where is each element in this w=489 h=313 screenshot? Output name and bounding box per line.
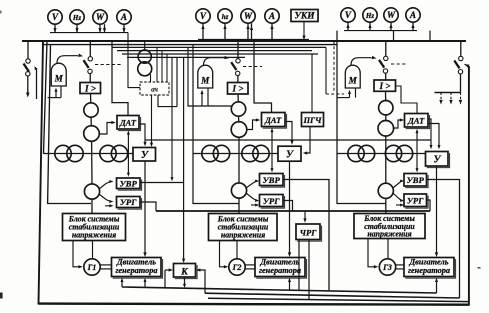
exciter machine E1 (84, 184, 99, 199)
svg-text:УРГ: УРГ (120, 197, 137, 207)
wire excitation L group 1 (48, 45, 91, 204)
wire CT feeder group 1 (43, 153, 133, 155)
svg-text:A: A (409, 10, 416, 20)
wire block1 to G1 top (92, 241, 94, 259)
wire U3 to motor block 3 (436, 166, 438, 255)
control line 4 (127, 56, 245, 58)
wire M2 lead left (201, 92, 203, 107)
overcurrent relay I>1 (80, 83, 101, 94)
current transformer CT2-2 (231, 122, 247, 138)
wire generator column 2 (238, 137, 240, 184)
wire U1 to motor block 1 (144, 161, 146, 255)
ammeter A1 (117, 10, 131, 24)
motor block 2 (255, 258, 305, 277)
bottom line 3 (208, 298, 469, 301)
current transformer pair B3 (385, 145, 401, 161)
feedback line UVR3 (205, 293, 460, 298)
wire K right input (199, 270, 206, 293)
svg-text:К: К (180, 266, 188, 277)
control unit UKI box (291, 10, 318, 22)
wire right feeder lower (460, 74, 462, 93)
stabiliser block 3 (354, 214, 425, 239)
wire U2 to motor block 2 (289, 161, 291, 254)
wire to ChRG (304, 211, 306, 221)
wire E3 to URG3 (393, 193, 402, 201)
wire left feeder (27, 41, 29, 59)
svg-text:I >: I > (84, 83, 96, 93)
shaft G2 (245, 264, 255, 266)
overcurrent relay I>3 (374, 80, 396, 91)
wire E3 to stabiliser block 3 (385, 198, 387, 214)
wire UVR1 output (140, 182, 184, 184)
wire E1 to UVR1 (99, 182, 111, 190)
wire control drop c (166, 54, 168, 82)
current transformer CT1-1 (84, 103, 98, 117)
svg-text:М: М (348, 76, 358, 86)
regulator box UVR2 (260, 174, 284, 186)
voltmeter V3 (341, 8, 355, 22)
wire UVR2 output (283, 180, 329, 292)
wire block2 to G2 left (220, 241, 226, 267)
wire collector drop group 3 right (429, 31, 431, 41)
ammeter A2 (265, 9, 279, 23)
frequency meter Hz2 (218, 9, 232, 23)
wire M3 trip arrow to breaker (351, 58, 372, 65)
wire DAT3 to U3 feed b (428, 124, 439, 148)
wire M3 lead right (355, 88, 357, 98)
svg-text:Г2: Г2 (232, 263, 242, 272)
wire UVR1 to K box (183, 57, 185, 261)
svg-text:УКИ: УКИ (294, 12, 315, 22)
wire I>2 to CT2-1 (237, 94, 239, 103)
wire ChRG down right (308, 240, 310, 300)
ammeter A3 (406, 8, 420, 22)
interlock arrow right feeder (464, 63, 470, 68)
svg-text:I >: I > (378, 81, 390, 91)
wire dashed vertical (333, 41, 335, 92)
wire control drop onto UVR1 line (171, 57, 173, 179)
wire control to DAT2 (254, 41, 272, 113)
regulator box URG1 (117, 197, 141, 208)
wire E2 to stabiliser block 2 (238, 198, 240, 214)
wire instrument collector group 3 (344, 30, 417, 32)
voltmeter V2 (196, 9, 210, 23)
feedback line K (122, 287, 437, 293)
svg-text:М: М (54, 74, 64, 84)
current transformer CT3-2 (378, 121, 394, 137)
wire E2 to URG2 (246, 193, 257, 201)
wire DAT2 to U2 (285, 122, 292, 143)
instrument switch box SA1 (140, 82, 169, 95)
current transformer pair B1 (100, 145, 116, 161)
svg-text:У: У (434, 155, 442, 166)
wire feedback to motor1 b (144, 280, 146, 288)
wire E1 to URG1 (99, 194, 111, 202)
wire CT3-2 to DAT3 input (393, 120, 402, 128)
svg-text:генератора: генератора (115, 266, 157, 275)
wire DAT3 to U3 feed a (428, 119, 431, 147)
svg-text:I >: I > (231, 84, 243, 94)
breaker left feeder (26, 59, 30, 63)
wire CT2-1 to CT2-2 (238, 116, 240, 123)
svg-text:М: М (200, 76, 210, 86)
wire aux to URG2 (251, 204, 257, 206)
wire left vertical 2 (44, 41, 48, 154)
frequency meter Hz3 (363, 8, 377, 22)
wire I>1 to CT1 (90, 94, 92, 104)
wire DAT3 / UVR3 vertical (416, 131, 418, 172)
load arrow 1 (440, 93, 442, 102)
motor relay M2 (198, 65, 213, 88)
wire Q3 interlock dashes (391, 63, 406, 65)
stabiliser block 1 (63, 214, 126, 241)
wire block3 to G3 top (387, 239, 389, 259)
motor relay M1 (51, 63, 66, 86)
wire E1 to stabiliser block 1 (91, 199, 93, 214)
control line 3 (122, 53, 318, 55)
wire ChRG down left (298, 240, 300, 291)
wire collector drop group 3 (393, 31, 395, 41)
wire control drop group 3 (325, 47, 327, 94)
wire instrument collector group 2 (198, 39, 309, 41)
current transformer pair A3 (348, 145, 364, 161)
wattmeter W3 (384, 8, 398, 22)
sensor box DAT1 (117, 116, 139, 130)
shaft G3 (396, 264, 404, 266)
current transformer pair A1 (55, 145, 71, 161)
svg-text:УРГ: УРГ (263, 196, 280, 206)
wire instrument collector group 1 (50, 32, 128, 34)
wire aux L group 2 (188, 47, 232, 106)
bus line 2 (43, 44, 337, 46)
wire M2 trip arrow to breaker (204, 58, 225, 65)
regulator box UVR1 (117, 178, 141, 189)
svg-text:У: У (141, 150, 149, 161)
wire generator column 3 (385, 135, 387, 184)
wire CT feeder group 2 (193, 153, 278, 155)
wire collector drop group 1 (128, 33, 140, 88)
generator G3 (379, 259, 395, 275)
regulator box UVR3 (404, 174, 427, 187)
svg-text:Г1: Г1 (87, 263, 97, 272)
enclosure border (39, 41, 469, 305)
wire M1 trip arrow to breaker (57, 56, 78, 64)
wire switch box stub (158, 95, 177, 107)
amplifier box U1 (133, 148, 156, 162)
wire VT to switch box (150, 74, 152, 82)
current transformer pair B2 (242, 145, 258, 161)
scan mark right margin dot (478, 267, 481, 269)
wire wattmeter W2 second stalk (251, 23, 253, 39)
svg-text:Hz: Hz (72, 14, 81, 22)
excitation L wire group 3 (337, 31, 386, 204)
load arrow 3 (460, 93, 462, 102)
wire CT2-2 to DAT2 input (246, 120, 258, 130)
control line 2 (117, 50, 312, 52)
overcurrent relay I>2 (228, 83, 249, 95)
wire control drop d (176, 57, 178, 106)
wire feedback to motor1 (121, 280, 123, 287)
svg-text:Г3: Г3 (382, 263, 392, 272)
wire aux to URG1 (105, 205, 111, 207)
load bar (435, 92, 462, 94)
wire Q1 to I>1 (89, 74, 91, 83)
wire I>3 to CT3-1 (385, 91, 387, 101)
exciter machine E2 (231, 183, 246, 198)
wire block2 to G2 top (236, 241, 238, 259)
svg-text:ач: ач (151, 86, 158, 94)
wire switch box output to U1 (151, 95, 153, 145)
svg-text:W: W (244, 11, 253, 21)
svg-text:напряжения: напряжения (72, 231, 116, 240)
wire URG3 output (427, 200, 431, 211)
motor block 3 (404, 258, 454, 277)
wire DAT2 / UVR2 vertical (271, 130, 273, 172)
shaft G1 (100, 264, 111, 266)
wire PGCh to U2 right (306, 127, 311, 154)
wire block3 to G3 left (368, 239, 376, 267)
excitation L wire group 2 (193, 45, 239, 204)
frequency regulator box ChRG (296, 224, 320, 240)
svg-text:V: V (345, 10, 352, 20)
regulator box URG3 (404, 194, 427, 207)
wire K output down (184, 277, 186, 285)
sensor box DAT3 (405, 114, 429, 128)
wire feedback to motor2 (289, 280, 291, 290)
wire left feeder interlock (36, 68, 38, 99)
svg-text:ДАТ: ДАТ (407, 117, 425, 126)
control line 1 (112, 46, 326, 48)
wire control to PGCh (311, 54, 313, 113)
wire block1 to G1 left (73, 241, 81, 267)
wire measurement bus y140 (145, 139, 431, 141)
svg-text:УВР: УВР (120, 178, 138, 188)
wire URG2 output (283, 201, 293, 212)
wire DAT1 / UVR1 vertical (127, 132, 129, 175)
voltage transformer T1 winding 2 (138, 62, 152, 76)
breaker right feeder (459, 56, 463, 60)
svg-text:генератора: генератора (259, 266, 301, 275)
wire Q1 interlock dashes (95, 64, 122, 66)
svg-text:УВР: УВР (263, 175, 281, 185)
common URG line (156, 210, 430, 212)
svg-text:генератора: генератора (408, 266, 450, 275)
svg-text:У: У (286, 150, 294, 161)
current transformer pair A2 (202, 145, 218, 161)
wire Q3 to I>3 (385, 73, 387, 80)
wire right feeder (460, 41, 462, 56)
svg-text:УРГ: УРГ (407, 196, 424, 206)
wire I>3 to DAT3 (396, 86, 418, 114)
wire M1 leads horizontal (48, 97, 61, 99)
wire M3 lead left (349, 92, 351, 98)
svg-text:W: W (387, 10, 396, 20)
amplifier box U2 (278, 146, 301, 161)
wire E3 to UVR3 (393, 181, 402, 188)
motor block 1 (112, 258, 162, 277)
svg-text:hz: hz (222, 13, 229, 21)
circuit breaker Q1 (89, 41, 91, 57)
frequency meter Hz1 (70, 10, 84, 24)
K box (174, 264, 196, 278)
exciter machine E3 (378, 183, 393, 198)
circuit breaker Q2 (237, 41, 239, 59)
svg-text:УВР: УВР (407, 175, 425, 185)
svg-text:A: A (120, 12, 127, 22)
svg-text:A: A (268, 11, 275, 21)
frequency sensor box PGCh (302, 113, 324, 127)
svg-text:V: V (52, 12, 59, 22)
wire UKI to bus (303, 22, 305, 38)
wire VT stem (144, 41, 146, 51)
wire CT3-1 to CT3-2 (385, 114, 387, 121)
wire dashed link to M3 (326, 93, 344, 95)
current transformer CT3-1 (379, 101, 393, 115)
main bus (22, 40, 466, 42)
sensor box DAT2 (262, 113, 286, 127)
svg-text:W: W (96, 12, 105, 22)
wire wattmeter W1 second stalk (104, 24, 106, 32)
wire Q2 interlock dashes (243, 66, 262, 68)
scan mark top left (0, 11, 2, 14)
svg-text:Hz: Hz (365, 12, 374, 20)
wire M3 leads horizontal (337, 97, 350, 99)
wattmeter W1 (93, 10, 107, 24)
wire control drop b (161, 51, 163, 82)
load arrow 2 (450, 93, 452, 102)
wire DAT1 to U1 (139, 124, 145, 144)
current transformer CT2-1 (231, 102, 245, 116)
wire M1 lead right (60, 86, 62, 98)
current transformer CT1-2 (84, 126, 100, 142)
svg-text:ДАТ: ДАТ (119, 119, 137, 128)
svg-text:ДАТ: ДАТ (264, 116, 282, 125)
svg-text:ПГЧ: ПГЧ (302, 115, 322, 125)
wattmeter W2 (241, 9, 255, 23)
wire CT1-2 to DAT1 input (99, 123, 114, 135)
scan mark left edge (0, 293, 3, 299)
voltage transformer T1 winding 1 (138, 50, 151, 63)
svg-text:ЧРГ: ЧРГ (300, 228, 318, 238)
wire M2 lead right (207, 88, 209, 106)
wire K left input (164, 270, 166, 288)
motor relay M3 (345, 65, 360, 88)
generator G1 (84, 259, 100, 275)
wire Q2 to I>2 (237, 76, 239, 83)
svg-text:напряжения: напряжения (367, 230, 411, 239)
regulator box URG2 (260, 195, 284, 207)
svg-text:V: V (200, 11, 207, 21)
svg-text:напряжения: напряжения (221, 231, 265, 240)
wire E2 to UVR2 (246, 181, 257, 188)
wire URG1 output (140, 202, 156, 211)
wire generator column 1 (91, 141, 93, 185)
generator G2 (229, 259, 245, 275)
wire CT1-1 to CT1-2 (90, 117, 92, 127)
circuit breaker Q3 (385, 41, 387, 56)
wire CT feeder group 3 (337, 153, 426, 155)
wire UVR3 output (427, 180, 460, 299)
wire left feeder lower (27, 76, 29, 94)
wire control drop a (156, 47, 158, 82)
stabiliser block 2 (209, 214, 278, 241)
voltmeter V1 (48, 10, 62, 24)
wire M1 lead left (55, 90, 57, 98)
amplifier box U3 (426, 152, 449, 167)
wire feedback to motor3 (436, 280, 438, 293)
enclosure border bottom (thick) (39, 304, 469, 305)
wire aux to URG3 (396, 204, 402, 206)
wire control to DAT1 (112, 41, 128, 116)
